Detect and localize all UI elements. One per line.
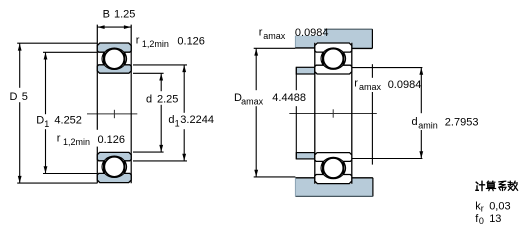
shaft shoulder face line [295, 67, 297, 159]
ball (bottom, left bearing) [104, 157, 124, 177]
svg-text:0,03: 0,03 [489, 201, 510, 213]
housing bottom block [295, 178, 373, 197]
shaft shoulder bar (top) [296, 67, 315, 74]
inner ring top section (right bearing) [315, 65, 352, 74]
inner ring top section (left bearing) [97, 65, 131, 73]
svg-text:D: D [36, 115, 44, 127]
dimension D: vertical line with arrows [18, 44, 22, 184]
inner ring bottom section (left bearing) [97, 152, 131, 160]
dimension d: vertical line with arrows [159, 73, 163, 152]
svg-text:r: r [354, 78, 358, 90]
shaft face boundary line [371, 64, 373, 164]
bearing right edge (right figure) [351, 43, 353, 184]
groove shoulder bars (top, right bearing) [322, 53, 324, 65]
svg-text:0.126: 0.126 [177, 36, 205, 48]
svg-text:0.126: 0.126 [98, 134, 126, 146]
raceway groove (top) [102, 48, 127, 69]
svg-text:1.25: 1.25 [114, 9, 135, 21]
shaft shoulder bar (bottom) [296, 153, 315, 159]
svg-text:amax: amax [263, 31, 286, 41]
outer ring top section (left bearing) [97, 43, 131, 52]
raceway groove (bottom, right bearing) [321, 157, 346, 178]
svg-text:0.0984: 0.0984 [295, 27, 329, 39]
label ra max 0.0984 (right) [353, 78, 384, 92]
label ra max 0.0984 (top) [293, 26, 324, 35]
title 计算系数 (drawn strokes) [476, 181, 518, 191]
raceway groove (bottom) [102, 156, 127, 177]
raceway groove (top, right bearing) [321, 48, 346, 69]
dimension D1: extension lines [43, 51, 97, 53]
label D1 4.252 [35, 114, 83, 129]
label d1 3.2244 [166, 113, 220, 129]
label d 2.25 [144, 91, 180, 105]
dimension da: extension lines [352, 67, 422, 69]
outer ring bottom section (right bearing) [315, 175, 352, 184]
svg-text:B: B [103, 9, 110, 21]
svg-text:d: d [146, 94, 152, 106]
label D 5 [8, 88, 30, 102]
svg-text:1: 1 [175, 119, 180, 129]
housing top block [295, 29, 372, 48]
svg-text:d: d [412, 116, 418, 128]
svg-text:amin: amin [418, 121, 438, 131]
dimension Da: extension lines [254, 47, 296, 49]
dimension da: vertical line with arrows [419, 68, 423, 159]
svg-text:4.4488: 4.4488 [272, 92, 306, 104]
dimension D: extension lines [17, 42, 97, 44]
svg-text:1,2min: 1,2min [142, 39, 169, 49]
outer ring bottom section (left bearing) [97, 173, 131, 182]
svg-text:13: 13 [489, 213, 501, 225]
svg-text:1,2min: 1,2min [63, 137, 90, 147]
outer ring top section (right bearing) [315, 43, 352, 52]
svg-text:2.25: 2.25 [157, 94, 178, 106]
bearing left edge (right figure) [314, 43, 316, 184]
svg-text:amax: amax [359, 82, 382, 92]
ball (top, right bearing) [323, 49, 343, 69]
ball (bottom, right bearing) [323, 158, 343, 178]
dimension d1: vertical line with arrows [182, 65, 186, 161]
svg-text:1: 1 [44, 119, 49, 129]
groove shoulder bars (bottom) [103, 161, 105, 173]
groove shoulder bars (top) [103, 53, 105, 65]
char suan [486, 181, 495, 191]
svg-text:4.252: 4.252 [54, 115, 82, 127]
svg-text:0: 0 [479, 216, 484, 226]
svg-text:d: d [168, 114, 174, 126]
svg-text:0.0984: 0.0984 [388, 79, 422, 91]
char shu [508, 181, 517, 190]
axis centerline (right figure) [289, 109, 377, 117]
svg-text:amax: amax [241, 97, 264, 107]
svg-text:r: r [136, 35, 140, 47]
svg-text:3.2244: 3.2244 [180, 114, 214, 126]
label da min 2.7953 [410, 113, 476, 130]
dimension d1: extension lines [133, 64, 187, 66]
char ji [476, 181, 485, 190]
dimension B: line and arrows [97, 25, 131, 29]
svg-text:r: r [57, 133, 61, 145]
dimension D1: vertical line with arrows [44, 52, 48, 173]
label Da max 4.4488 [232, 90, 306, 106]
wire: bearing left edge / B extension line [96, 25, 98, 184]
dimension d: extension lines [133, 72, 164, 74]
label r1,2min 0.126 (bottom) [96, 130, 126, 147]
svg-text:D: D [10, 91, 18, 103]
svg-text:2.7953: 2.7953 [445, 117, 479, 129]
wire: bearing right edge / B extension line [130, 25, 132, 184]
svg-text:r: r [481, 204, 484, 214]
char xi [499, 181, 506, 190]
groove shoulder bars (bottom, right bearing) [322, 162, 324, 174]
svg-text:5: 5 [22, 91, 28, 103]
axis centerline (left figure) [87, 110, 137, 118]
inner ring bottom section (right bearing) [315, 153, 352, 162]
svg-text:r: r [259, 27, 263, 39]
dimension Da: vertical line with arrows [254, 49, 258, 177]
ball (top, left bearing) [104, 49, 124, 69]
